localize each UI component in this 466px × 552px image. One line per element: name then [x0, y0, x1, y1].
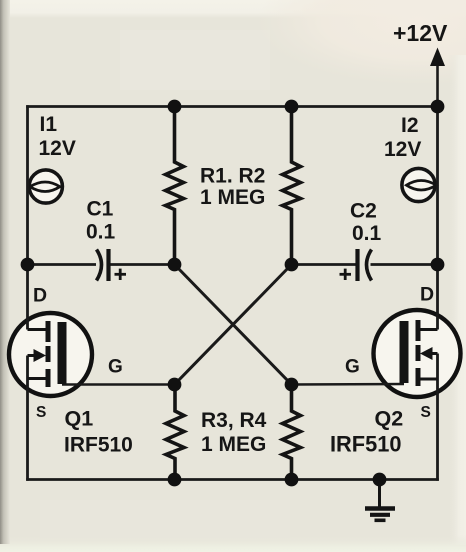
- lamp I1: [29, 170, 62, 203]
- node bottom R4: [285, 473, 299, 487]
- svg-text:1 MEG: 1 MEG: [201, 433, 266, 456]
- transistor Q1 body circle: [9, 313, 92, 396]
- node ground: [373, 473, 387, 487]
- Q2 body arrow: [420, 347, 438, 360]
- Q1 gate bar: [58, 322, 67, 384]
- node gate Q1: [168, 378, 182, 392]
- svg-text:C2: C2: [350, 200, 377, 223]
- wire left rail to C1: [28, 263, 97, 266]
- svg-text:R3, R4: R3, R4: [201, 409, 267, 432]
- svg-text:S: S: [421, 404, 431, 421]
- +12V supply arrowhead: [430, 48, 445, 67]
- svg-text:12V: 12V: [384, 138, 421, 161]
- svg-text:S: S: [36, 404, 46, 421]
- svg-text:D: D: [420, 284, 434, 306]
- lamp I2: [402, 168, 436, 201]
- node bottom R3: [168, 473, 182, 487]
- cross wire node A to Q2 gate: [175, 265, 292, 385]
- svg-text:I1: I1: [40, 113, 58, 136]
- svg-text:12V: 12V: [39, 137, 76, 160]
- Q2 gate bar: [400, 321, 409, 383]
- resistor R2: [283, 107, 301, 264]
- svg-text:D: D: [33, 285, 47, 307]
- Q1 body arrow: [28, 349, 47, 362]
- node A (C1/R1/cross): [168, 258, 182, 272]
- node top R2: [285, 100, 299, 114]
- capacitor C1: [97, 249, 109, 281]
- wire gate Q1: [62, 383, 175, 386]
- node B (C2/R2/cross): [285, 258, 299, 272]
- svg-text:IRF510: IRF510: [330, 432, 401, 457]
- svg-text:0.1: 0.1: [86, 221, 116, 244]
- node mid right rail: [431, 258, 445, 272]
- svg-text:+12V: +12V: [393, 20, 448, 46]
- svg-text:R1. R2: R1. R2: [200, 165, 265, 188]
- C1 polarity +: [115, 269, 127, 280]
- transistor Q2 body circle: [374, 310, 461, 397]
- Q2 channel stubs: [416, 320, 421, 386]
- wire right rail lower (Q2 source to bottom bus): [436, 354, 439, 481]
- wire top bus: [26, 105, 439, 108]
- svg-text:1 MEG: 1 MEG: [200, 186, 265, 209]
- wire +12V riser: [436, 63, 439, 107]
- node top R1: [168, 100, 182, 114]
- Q1 drain lead: [28, 328, 46, 331]
- svg-text:0.1: 0.1: [352, 222, 382, 245]
- cross wire node B to Q1 gate: [175, 265, 292, 385]
- C2 polarity +: [340, 269, 352, 280]
- svg-text:I2: I2: [401, 114, 419, 137]
- Q1 channel stubs: [46, 321, 51, 387]
- Q1 source lead: [28, 377, 46, 380]
- Q2 source lead: [421, 378, 438, 381]
- resistor R3: [166, 385, 184, 479]
- svg-text:IRF510: IRF510: [64, 434, 133, 457]
- wire bottom bus: [26, 478, 439, 481]
- svg-text:Q1: Q1: [65, 407, 94, 431]
- wire right rail upper (top bus to Q2 drain): [436, 105, 439, 329]
- node mid left rail: [21, 258, 35, 272]
- resistor R4: [283, 385, 301, 479]
- wire node B to C2: [292, 263, 356, 266]
- node +12V corner: [431, 100, 445, 114]
- wire gate Q2: [292, 383, 405, 386]
- svg-text:G: G: [345, 357, 360, 378]
- svg-text:Q2: Q2: [375, 407, 404, 431]
- wire left rail lower (Q1 source to bottom bus): [26, 356, 29, 481]
- resistor R1: [166, 107, 184, 264]
- ground: [365, 480, 395, 521]
- wire C1 to node A: [111, 263, 175, 266]
- Q2 drain lead: [421, 328, 438, 331]
- wire C2 to right rail: [371, 263, 438, 266]
- svg-text:G: G: [108, 357, 123, 378]
- capacitor C2: [358, 249, 372, 281]
- svg-text:C1: C1: [87, 198, 114, 221]
- wire left rail upper (top bus to Q1 drain): [26, 105, 29, 329]
- node gate Q2: [285, 378, 299, 392]
